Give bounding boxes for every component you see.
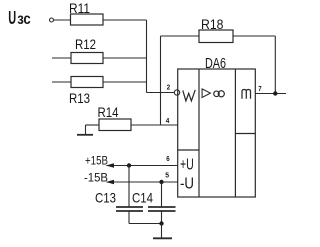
svg-text:-U: -U	[180, 176, 194, 193]
op-amp U1 DA6 body	[178, 69, 256, 197]
wire input bus vertical	[146, 20, 148, 93]
svg-text:C13: C13	[95, 191, 116, 206]
resistor R14	[99, 119, 131, 131]
wire R18 right vertical down to output	[274, 36, 276, 94]
svg-text:R14: R14	[98, 105, 119, 120]
wire R18 feedback left vertical	[160, 36, 162, 125]
symbol W (first section)	[183, 90, 195, 101]
svg-text:-15В: -15В	[84, 173, 108, 185]
wire feedback top left	[161, 35, 200, 37]
junction pin6/C13	[127, 163, 131, 167]
svg-text:U: U	[8, 8, 16, 28]
wire pin 5 (-15V rail)	[107, 181, 178, 183]
wire R18 to output vertical	[233, 35, 275, 37]
svg-text:R11: R11	[69, 1, 90, 16]
wire terminal to R11	[54, 19, 71, 21]
wire bottom joining	[129, 223, 162, 225]
wire R13 left stub	[52, 81, 71, 83]
svg-text:зс: зс	[17, 11, 31, 28]
resistor R18	[199, 30, 233, 43]
symbol infinity	[214, 91, 225, 97]
arrow +15V	[106, 163, 114, 168]
ground (at R14 left)	[77, 125, 93, 135]
arrow -15V	[106, 180, 114, 185]
symbol m (output section)	[242, 90, 251, 99]
wire R14 to pin 4	[131, 124, 178, 126]
junction output/R18	[273, 91, 277, 95]
wire C13 top stem	[128, 166, 130, 208]
wire C14 top stem	[161, 182, 163, 207]
wire bus to pin 2	[147, 92, 175, 94]
resistor R11	[71, 14, 104, 25]
svg-text:+U: +U	[180, 156, 194, 173]
terminal (input connection circle)	[50, 18, 54, 22]
wire R11 to bus	[103, 19, 147, 21]
svg-text:2: 2	[167, 85, 170, 92]
wire ground to R14	[86, 124, 100, 126]
junction pin5/C14	[159, 180, 163, 184]
svg-text:C14: C14	[132, 191, 153, 206]
wire R13 to bus	[103, 81, 147, 83]
svg-text:7: 7	[258, 86, 261, 93]
wire pin 6 (+15V rail)	[107, 165, 178, 167]
capacitor C13	[116, 207, 143, 211]
wire R12 to bus	[103, 57, 147, 59]
wire ground stem	[161, 224, 163, 239]
ground (bottom)	[153, 237, 172, 239]
resistor R12	[71, 53, 103, 64]
wire output (pin 7)	[255, 93, 286, 95]
node Uзс (input net label)	[8, 8, 31, 28]
wire C13 bottom stem	[128, 211, 130, 224]
wire C14 bottom stem	[161, 211, 163, 224]
svg-text:R18: R18	[201, 17, 224, 32]
capacitor C14	[148, 207, 176, 211]
svg-text:+15В: +15В	[85, 156, 108, 168]
resistor R13	[71, 77, 103, 88]
wire R12 left stub	[52, 57, 71, 59]
svg-text:5: 5	[165, 172, 169, 179]
svg-text:R13: R13	[69, 91, 90, 106]
svg-text:6: 6	[166, 156, 169, 163]
svg-text:R12: R12	[75, 37, 96, 52]
svg-text:DA6: DA6	[205, 56, 226, 72]
inversion circle at pin 2	[174, 90, 179, 95]
junction bottom	[159, 221, 163, 225]
symbol amplifier triangle	[202, 89, 210, 98]
svg-text:4: 4	[166, 118, 170, 125]
